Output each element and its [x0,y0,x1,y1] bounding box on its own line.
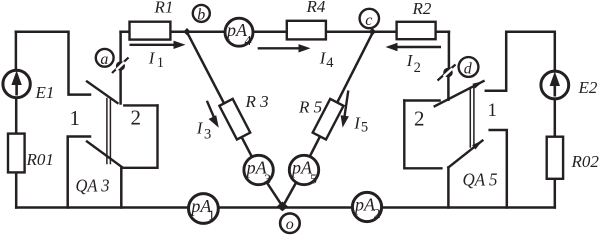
wire QA3 blade2 to bottom [120,168,123,208]
svg-text:R 5: R 5 [298,98,322,117]
svg-text:E1: E1 [35,83,55,102]
wire QA5 contact 1a / E2 loop [486,32,555,91]
svg-text:a: a [100,51,108,68]
node c label circle [360,9,379,29]
svg-text:R 3: R 3 [245,92,269,111]
wire right rail lower [554,178,557,208]
svg-text:QA 3: QA 3 [76,176,110,196]
wire pA5 to node o [283,184,295,205]
QA3 pivot contact [112,58,129,74]
svg-text:2: 2 [374,207,381,222]
svg-text:1: 1 [488,100,498,121]
wire left rail upper [15,32,18,70]
QA3 bracket position 2 [124,105,157,167]
ammeter pA5 [289,155,318,187]
svg-text:5: 5 [310,173,317,188]
current arrow I2 [386,43,442,76]
svg-text:2: 2 [414,107,425,131]
wire diagonal node b to R3 [188,33,252,155]
source E1 [3,70,30,97]
ammeter pA4 [225,18,253,49]
svg-text:o: o [286,216,294,233]
wire diagonal node c to R5 [310,33,372,155]
resistor R4 [287,21,326,40]
wire QA5 blade2 to bottom [447,168,450,208]
node b junction [183,28,190,35]
node d label circle [459,57,479,77]
QA5 bracket position 2 [404,101,441,169]
svg-text:3: 3 [264,173,271,188]
node c junction [369,28,376,35]
svg-text:1: 1 [208,209,215,224]
svg-text:c: c [365,12,372,29]
current arrow I5 [341,91,369,136]
wire left rail mid [15,99,18,135]
wire QA3 contact 1b [68,137,90,208]
resistor R01 [8,134,25,173]
wire bottom main [16,206,555,209]
node b label circle [193,5,210,24]
current arrow I4 [258,44,335,71]
QA5 contact 2a [404,99,439,101]
svg-text:d: d [464,60,473,77]
wire QA5 pivot lower [447,77,450,100]
svg-text:2: 2 [131,106,142,130]
svg-text:R4: R4 [306,0,326,16]
QA3 blade 1 [87,82,118,104]
wire left rail lower [15,171,18,207]
wire QA3 pivot upper [119,32,122,62]
QA5 blade 1 [435,81,484,106]
ammeter pA2 [352,192,381,221]
resistor R1 [130,22,171,40]
QA5 link bar [470,88,474,148]
switch QA3 [87,82,158,168]
ammeter pA1 [189,194,219,224]
svg-text:2: 2 [414,60,421,76]
resistor R3 [219,99,250,140]
svg-text:4: 4 [326,55,334,71]
current arrow I3 [196,101,219,143]
resistor R02 [547,137,563,179]
resistor R5 [313,99,344,140]
svg-text:QA 5: QA 5 [463,170,498,190]
current arrow I1 [130,41,186,71]
QA3 link bar [107,99,111,164]
QA3 blade 2 [87,142,123,168]
wire QA5 contact 1b [490,130,507,208]
svg-text:4: 4 [245,34,252,49]
QA5 pivot contact [438,65,456,81]
svg-text:R02: R02 [571,152,600,171]
wire top main [121,30,449,33]
svg-text:1: 1 [70,106,81,130]
ammeter pA3 [244,155,273,187]
svg-text:R1: R1 [154,0,174,17]
wire left E1 loop top [16,32,90,95]
wire QA3 pivot lower [119,70,122,103]
QA5 blade 2 [448,141,482,168]
node o junction [277,202,289,212]
wire QA5 pivot upper [448,32,451,68]
svg-text:R01: R01 [26,150,54,169]
node a label circle [96,49,114,68]
svg-text:E2: E2 [578,78,598,97]
QA5 blade 2 arrowhead [472,141,482,150]
wire right rail mid [554,100,557,139]
svg-text:3: 3 [204,126,211,142]
source E2 [541,71,569,99]
svg-text:5: 5 [361,120,368,136]
switch QA5 [404,81,483,168]
QA5 blade 1 arrowhead [472,81,483,88]
node o label circle [280,213,300,233]
svg-text:1: 1 [157,55,164,71]
QA3 contact 2a [124,104,157,106]
resistor R2 [397,22,436,39]
svg-text:R2: R2 [412,0,432,18]
svg-text:b: b [197,6,205,23]
wire pA3 to node o [267,183,282,205]
